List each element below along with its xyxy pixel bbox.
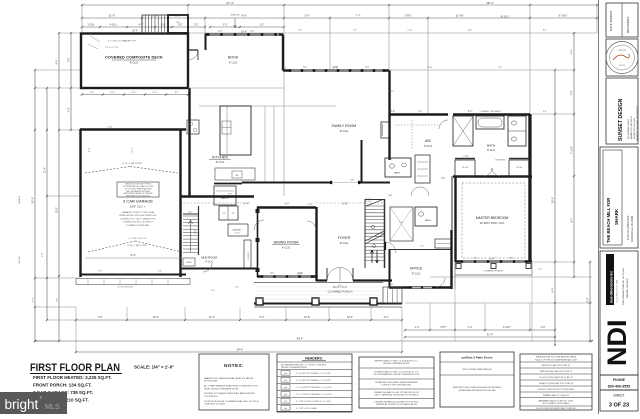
svg-text:2′-6½″: 2′-6½″ [404,14,411,18]
svg-text:9′ CLG: 9′ CLG [234,233,240,235]
svg-text:6′-2″: 6′-2″ [260,25,265,27]
svg-text:BASEMENT WALLS TO BE R-15 CONT: BASEMENT WALLS TO BE R-15 CONT [539,399,575,402]
svg-text:2 - 2 x 6 W/ 1/2″ OSB JACK, 2: 2 - 2 x 6 W/ 1/2″ OSB JACK, 2 - 2 x 6 JC… [296,372,331,375]
svg-text:4′-0″: 4′-0″ [42,253,44,257]
svg-text:UNLESS OTHERWISE NOTED: UNLESS OTHERWISE NOTED [383,363,410,365]
svg-text:HEADERS:: HEADERS: [305,357,323,361]
svg-text:STEP ↓: STEP ↓ [389,90,395,93]
svg-text:800-406-3555: 800-406-3555 [608,385,630,389]
svg-text:54′-4″: 54′-4″ [237,348,244,352]
svg-text:FRAMED WALLS TO BE R-15: FRAMED WALLS TO BE R-15 [543,394,569,397]
svg-text:3050: 3050 [250,31,254,33]
svg-text:3684 JERMANTOWN RD, SUITE 400: 3684 JERMANTOWN RD, SUITE 400 [622,267,625,305]
svg-text:BENCH: BENCH [186,262,192,264]
svg-text:FAMILY ROOM: FAMILY ROOM [332,124,357,128]
svg-text:7′-11½″: 7′-11½″ [570,146,574,154]
svg-text:REVISIONS: REVISIONS [626,17,630,33]
svg-text:W/ OSB SHEATHING UNLESS OTHERW: W/ OSB SHEATHING UNLESS OTHERWISE NOTED [374,373,420,376]
svg-text:9′-4″: 9′-4″ [552,287,555,292]
svg-text:10′ BOX TRAY CLG: 10′ BOX TRAY CLG [480,221,505,225]
svg-text:CAPPING AT ON FIRST FLOOR WALL: CAPPING AT ON FIRST FLOOR WALLS AF SF2 [376,403,417,406]
svg-text:BATH: BATH [487,144,495,148]
svg-text:3′-0″: 3′-0″ [388,159,392,161]
svg-text:5068: 5068 [350,180,354,182]
svg-text:37′-4″: 37′-4″ [226,1,234,5]
svg-text:8′-0″: 8′-0″ [89,148,91,152]
svg-text:3′-0″: 3′-0″ [538,269,542,271]
svg-text:H-3: H-3 [284,387,287,389]
svg-text:SHEET: SHEET [613,394,624,398]
svg-text:2′-4″: 2′-4″ [468,326,473,329]
svg-text:21′-8″: 21′-8″ [107,127,113,129]
svg-text:519 MORAN COURT: 519 MORAN COURT [627,119,630,139]
svg-text:3050: 3050 [509,258,513,260]
svg-text:U 31 x 7 RA. POINT: U 31 x 7 RA. POINT [122,162,142,165]
svg-text:5′-0″: 5′-0″ [285,204,290,206]
svg-text:5′-0″: 5′-0″ [399,222,403,224]
svg-text:INSULATION AS FOLLOWS MEETING: INSULATION AS FOLLOWS MEETING TABLE [536,356,577,359]
svg-text:8′-4″: 8′-4″ [283,68,287,70]
svg-text:2-8: 2-8 [232,213,235,215]
svg-text:ON 4MIL POLY ON 4″ GRAVEL FILL: ON 4MIL POLY ON 4″ GRAVEL FILL [120,217,156,220]
svg-text:FIRST FLOOR PLAN: FIRST FLOOR PLAN [30,362,120,374]
svg-text:7′-7″: 7′-7″ [355,14,360,18]
svg-text:84′-4″: 84′-4″ [297,337,304,341]
svg-text:ON FDN: ON FDN [19,256,21,264]
svg-text:4′-0″: 4′-0″ [211,290,215,292]
svg-text:6′-10½″: 6′-10½″ [559,14,568,18]
svg-text:GARAGE TO BE 4″ CONC SLAB: GARAGE TO BE 4″ CONC SLAB [122,211,155,214]
svg-text:3050: 3050 [473,258,477,260]
svg-text:BATH: BATH [394,172,400,175]
svg-text:DATE 4/9/2024: DATE 4/9/2024 [609,10,613,31]
svg-text:SOLID DOORS U-FACTOR TO BE .32: SOLID DOORS U-FACTOR TO BE .32 [539,376,572,379]
svg-text:8′-0″: 8′-0″ [587,297,590,302]
svg-text:3 OF 23: 3 OF 23 [609,403,629,409]
svg-text:4419 COLUMBIA PIKE: 4419 COLUMBIA PIKE [627,215,630,240]
svg-text:SHARK: SHARK [614,208,619,225]
svg-text:4/11/24: 4/11/24 [619,65,625,67]
svg-text:bright: bright [5,397,39,412]
svg-text:NOOK: NOOK [228,56,239,60]
svg-text:FOYER: FOYER [338,236,351,240]
svg-text:DINING ROOM: DINING ROOM [274,241,299,245]
svg-text:2-8: 2-8 [223,213,226,215]
svg-text:2 x 1 3/4″ LVL HEADER TYP.: 2 x 1 3/4″ LVL HEADER TYP. [108,40,137,43]
svg-text:2868: 2868 [195,230,197,234]
svg-text:GLASS DOORS U-FACTOR TO BE .32: GLASS DOORS U-FACTOR TO BE .32 [539,382,573,385]
svg-text:FIRST FLOOR HEATED: 3,225 SQ.F: FIRST FLOOR HEATED: 3,225 SQ.FT. [33,375,112,380]
svg-text:HEADERS 6/11 TRANSOM SHALL BE: HEADERS 6/11 TRANSOM SHALL BE AT 8′-0″ A… [204,377,254,380]
svg-text:12′-8″: 12′-8″ [304,316,310,319]
svg-text:THE BEACH MILL FOR: THE BEACH MILL FOR [606,198,611,243]
svg-text:2′-8″: 2′-8″ [178,25,183,27]
svg-text:29′-0″: 29′-0″ [551,197,555,204]
svg-text:48′-4″: 48′-4″ [486,1,494,5]
svg-text:9′ CLG: 9′ CLG [340,129,349,133]
svg-text:CERTIFIED: CERTIFIED [618,50,627,52]
svg-text:6′-0″: 6′-0″ [235,287,239,289]
svg-text:2′-8″: 2′-8″ [498,67,502,69]
svg-text:6′-2″: 6′-2″ [298,30,302,32]
svg-text:10′6″ CLG +-: 10′6″ CLG +- [130,205,146,209]
svg-text:2′-8″: 2′-8″ [541,326,546,329]
svg-text:MASTER BEDROOM: MASTER BEDROOM [476,216,509,220]
svg-text:CLOS: CLOS [516,167,522,169]
svg-text:USE ANTI-SQUEAK LVL-II AT 1ST: USE ANTI-SQUEAK LVL-II AT 1ST SECOND FLO… [374,391,419,394]
svg-text:7′-8½″: 7′-8½″ [440,325,447,329]
svg-text:CORE SELF CLOSING: CORE SELF CLOSING [204,404,225,406]
svg-text:9′-8″: 9′-8″ [228,194,232,196]
svg-text:ALL OTHER HEADERS SHALL BE AT: ALL OTHER HEADERS SHALL BE AT 6′-8″ ABOV… [204,385,258,388]
svg-text:PHONE 443-994-5649: PHONE 443-994-5649 [634,117,636,139]
svg-text:CEILING TO BE R-49 W/ 4″ TRUSS: CEILING TO BE R-49 W/ 4″ TRUSS HEEL [538,389,576,391]
svg-text:4′-3″: 4′-3″ [139,25,144,27]
svg-text:3050: 3050 [298,273,302,275]
svg-text:new dimensions inc: new dimensions inc [609,271,613,303]
svg-text:3050: 3050 [218,31,222,33]
svg-text:4′-7″: 4′-7″ [90,92,95,94]
svg-text:2 - 2 x 8 W/ 1/2″ OSB JACK, 2: 2 - 2 x 8 W/ 1/2″ OSB JACK, 2 - 2 x 6 JC… [296,379,331,382]
svg-text:8′-7″: 8′-7″ [571,217,574,222]
svg-text:16′-0″: 16′-0″ [489,259,495,261]
svg-text:3050: 3050 [365,67,369,69]
svg-text:5068 BIPASS: 5068 BIPASS [495,159,506,162]
svg-text:STRAPPING IS REQUIRED WHERE SH: STRAPPING IS REQUIRED WHERE SHEATHING [375,381,418,384]
svg-text:OR R-13 BATT R STUD WALLS: OR R-13 BATT R STUD WALLS [542,402,570,405]
svg-text:4′-4″: 4′-4″ [571,49,574,54]
svg-text:17′-4″: 17′-4″ [243,204,249,206]
svg-text:4′-7″: 4′-7″ [175,92,180,94]
svg-text:DRAWN BY: MICHAEL STEVENSON: DRAWN BY: MICHAEL STEVENSON [636,106,639,141]
svg-text:BATH: BATH [425,219,431,222]
svg-text:3050: 3050 [334,67,338,69]
svg-text:FAIRFAX, VA 22030: FAIRFAX, VA 22030 [626,278,629,298]
svg-text:2 - 1 3/4″ x 18″ LVL: 2 - 1 3/4″ x 18″ LVL [128,238,147,240]
svg-text:WINDOW U-FACTOR TO BE .32: WINDOW U-FACTOR TO BE .32 [542,364,570,367]
svg-text:7′-8″: 7′-8″ [98,316,103,319]
svg-text:14′-8″: 14′-8″ [307,204,313,206]
svg-text:CLOS: CLOS [462,167,468,169]
svg-text:COMPACTED FILL SLOPED 2″: COMPACTED FILL SLOPED 2″ [123,221,154,224]
svg-text:LAUNDRY: LAUNDRY [232,229,242,232]
svg-text:KITCHEN: KITCHEN [212,156,228,160]
svg-text:OFFICE: OFFICE [410,267,423,271]
svg-text:12′-0″: 12′-0″ [33,297,35,303]
svg-text:2 - 2 x 12 W/ 1/2″ OSB JACK, 2: 2 - 2 x 12 W/ 1/2″ OSB JACK, 2 - 2 x 6 J… [296,393,332,396]
svg-text:16′ x 8′ OH DOOR: 16′ x 8′ OH DOOR [117,287,133,289]
svg-text:PROVIDE 1/2″ EXHAUST FANS IN: PROVIDE 1/2″ EXHAUST FANS IN ALL BATHS V… [204,392,256,395]
svg-text:9′ CLG: 9′ CLG [340,241,349,245]
svg-text:WIC: WIC [425,139,432,143]
svg-text:H-6: H-6 [284,408,287,410]
svg-text:LEVEL UNLESS OTHERWISE NOTED: LEVEL UNLESS OTHERWISE NOTED [204,388,239,390]
svg-text:DOOR FROM HOUSE TO GARAGE SHAL: DOOR FROM HOUSE TO GARAGE SHALL BE 1 3/4… [204,400,259,403]
svg-text:ALL HEADERS SHALL BE 2 - 2 x 6: ALL HEADERS SHALL BE 2 - 2 x 6 W/ 1/2″ O… [281,363,327,366]
svg-text:8′-4″: 8′-4″ [56,59,59,64]
svg-text:8′-4″: 8′-4″ [543,30,547,32]
svg-text:9′ CLG: 9′ CLG [130,61,139,65]
svg-text:WINDOWS TO BE DOUBLE HUNG ATU: WINDOWS TO BE DOUBLE HUNG ATU RETRACTABL… [453,386,502,389]
svg-text:11′-6″: 11′-6″ [109,14,115,18]
svg-text:9′ CLG: 9′ CLG [412,272,421,276]
svg-text:SCREEN AND SIZES AS NOTED ON P: SCREEN AND SIZES AS NOTED ON PLAN [458,389,496,392]
svg-text:4′-0″: 4′-0″ [384,316,389,319]
svg-text:NDI: NDI [602,320,632,367]
svg-text:UP: UP [176,22,180,24]
svg-text:9′-8″: 9′-8″ [57,298,59,302]
svg-text:10′-0″: 10′-0″ [389,111,395,113]
svg-text:7′-8″: 7′-8″ [68,57,71,62]
svg-text:18′-9″: 18′-9″ [241,32,247,34]
svg-text:ANNAPOLIS, MD 21401: ANNAPOLIS, MD 21401 [630,116,633,139]
svg-text:8′-9″: 8′-9″ [241,14,246,18]
svg-text:26′-4″: 26′-4″ [132,31,138,33]
svg-text:WINDOW SHGC FACTOR TO BE .25: WINDOW SHGC FACTOR TO BE .25 [540,370,573,373]
svg-text:18′-4″: 18′-4″ [153,316,159,319]
svg-text:COVERED COMPOSITE DECK: COVERED COMPOSITE DECK [105,56,163,60]
svg-text:GARAGE: GARAGE [18,195,21,204]
svg-text:VINYL DOUBLE PANE WINDOW: VINYL DOUBLE PANE WINDOW [462,368,492,371]
svg-text:2868: 2868 [388,195,392,197]
svg-text:Custom Homes Since 1989: Custom Homes Since 1989 [616,280,619,303]
svg-text:uniGlas 5 Patio Doors: uniGlas 5 Patio Doors [461,356,493,360]
svg-text:3′-0″: 3′-0″ [223,25,228,27]
svg-text:2 - 1 3/4″ x 14″ LVL JACK: 2 - 1 3/4″ x 14″ LVL JACK [296,407,318,410]
svg-text:2868: 2868 [258,220,260,224]
svg-text:PER R302.5.3 OF 2015 IRC: PER R302.5.3 OF 2015 IRC [126,195,150,197]
svg-text:DOES NOT LAP OVER RIM JOIST: DOES NOT LAP OVER RIM JOIST [382,384,413,387]
svg-text:H-2: H-2 [284,380,287,382]
svg-text:31′-6″: 31′-6″ [130,255,136,257]
svg-text:2 - 1 3/4″ x 9 1/4″ LVL JACK,: 2 - 1 3/4″ x 9 1/4″ LVL JACK, 2 - 2 x 6 … [296,400,331,403]
svg-text:3 CAR GARAGE: 3 CAR GARAGE [123,199,153,204]
svg-text:UNLESS OTHERWISE NOTED: UNLESS OTHERWISE NOTED [281,367,308,369]
svg-text:21′-0″: 21′-0″ [209,316,215,319]
svg-text:7′-0″: 7′-0″ [353,30,357,32]
svg-text:(WINDOW): (WINDOW) [230,15,239,17]
svg-text:LOCKERS: LOCKERS [248,251,250,260]
svg-text:5′-4″: 5′-4″ [543,111,547,113]
svg-text:2 - 2 x 10 W/ 1/2″ OSB JACK, 2: 2 - 2 x 10 W/ 1/2″ OSB JACK, 2 - 2 x 6 J… [296,386,332,389]
svg-text:H-4: H-4 [284,394,287,396]
svg-text:U 31 x 7 RA. POINT: U 31 x 7 RA. POINT [127,244,147,247]
svg-text:55′-0″: 55′-0″ [31,197,35,204]
svg-text:REINFORCED WITH 6x6 WWM 10/10: REINFORCED WITH 6x6 WWM 10/10 [119,215,157,217]
svg-text:2′-0″: 2′-0″ [420,246,424,248]
svg-text:30′-0″: 30′-0″ [56,207,59,213]
svg-text:9′ CLG: 9′ CLG [282,246,291,250]
svg-text:8′-0″: 8′-0″ [260,316,265,319]
svg-text:9′-0″: 9′-0″ [98,271,102,273]
svg-text:9′-0″: 9′-0″ [468,111,473,113]
svg-text:SCALE: 1/4″ = 1′-0″: SCALE: 1/4″ = 1′-0″ [134,365,175,370]
svg-text:13′-4″: 13′-4″ [347,316,353,319]
svg-text:4′-0″: 4′-0″ [68,107,71,112]
svg-text:FLOOR LEVEL: FLOOR LEVEL [204,381,219,383]
svg-text:9′ CLG: 9′ CLG [229,61,238,65]
svg-text:9′-0″: 9′-0″ [158,271,162,273]
svg-text:8′-11½″: 8′-11½″ [503,325,511,329]
svg-text:2-2668: 2-2668 [463,156,468,158]
svg-text:TOWARD DOORS MIN.: TOWARD DOORS MIN. [126,224,150,227]
svg-text:3′-9″: 3′-9″ [304,14,309,18]
svg-text:PhONE: PhONE [613,378,625,382]
svg-text:H-5: H-5 [284,401,287,403]
svg-text:9′ CLG: 9′ CLG [216,160,225,164]
svg-text:N1102.1 OF THE 2015 VA RESIDEN: N1102.1 OF THE 2015 VA RESIDENTIAL CODE [535,358,578,361]
svg-text:3050: 3050 [303,67,307,69]
svg-text:16′-9″: 16′-9″ [467,30,472,32]
svg-text:EXTERIOR WALLS TO BE 2 x 6 STU: EXTERIOR WALLS TO BE 2 x 6 STUDS AT 16″ … [374,371,419,374]
svg-text:COVERED PORCH: COVERED PORCH [328,290,353,294]
svg-text:H-1: H-1 [284,373,287,375]
svg-text:MUD ROOM: MUD ROOM [201,256,218,260]
svg-text:FLOOR OVER UNCONDITIONED TO BE: FLOOR OVER UNCONDITIONED TO BE R-19 [536,408,577,410]
svg-text:MLS: MLS [45,402,60,411]
svg-text:INTERIOR WALLS TO BE 2 x 4 STU: INTERIOR WALLS TO BE 2 x 4 STUDS AT 16″ … [375,360,419,363]
svg-text:COVERED PORCH: COVERED PORCH [483,271,503,273]
svg-text:9′ CLG: 9′ CLG [205,261,212,264]
svg-text:11′-2″: 11′-2″ [132,147,134,152]
svg-text:10′-8″: 10′-8″ [342,204,348,206]
svg-text:9′ CLG: 9′ CLG [424,144,432,148]
svg-text:USE ANTI-SQUEAK LVL-II AT FIRS: USE ANTI-SQUEAK LVL-II AT FIRST FLOOR DE… [375,400,420,403]
svg-text:2868: 2868 [441,178,445,180]
svg-text:FRONT PORCH: 134 SQ.FT.: FRONT PORCH: 134 SQ.FT. [33,383,92,388]
svg-text:7′-4″: 7′-4″ [571,90,574,95]
svg-text:NOTES:: NOTES: [224,363,244,368]
svg-text:9′ CLG: 9′ CLG [487,149,495,152]
svg-text:2′-0″: 2′-0″ [194,25,199,27]
svg-text:6′-8″: 6′-8″ [418,111,422,113]
svg-text:TO EXTERIOR: TO EXTERIOR [204,396,218,398]
svg-text:DECK / CAPPING AT ON SECOND FL: DECK / CAPPING AT ON SECOND FLOOR WALLS [375,393,420,396]
svg-text:3050: 3050 [270,273,274,275]
svg-text:SUNSET DESIGN: SUNSET DESIGN [618,98,624,141]
svg-text:8′-11½″: 8′-11½″ [501,15,510,19]
svg-text:PT 2 x 2 TYP.: PT 2 x 2 TYP. [105,47,119,49]
svg-text:18′-0″: 18′-0″ [427,67,433,69]
svg-text:51 SHARP TILE SHWR: 51 SHARP TILE SHWR [479,110,501,113]
svg-text:21′-6½″: 21′-6½″ [456,14,465,18]
svg-text:41′-4″: 41′-4″ [487,334,493,337]
svg-text:ANNANDALE, VA 22003: ANNANDALE, VA 22003 [631,215,634,242]
svg-text:21′-4″: 21′-4″ [44,167,47,173]
svg-text:5′-11″: 5′-11″ [408,30,413,32]
svg-text:2′-4″: 2′-4″ [415,326,420,329]
